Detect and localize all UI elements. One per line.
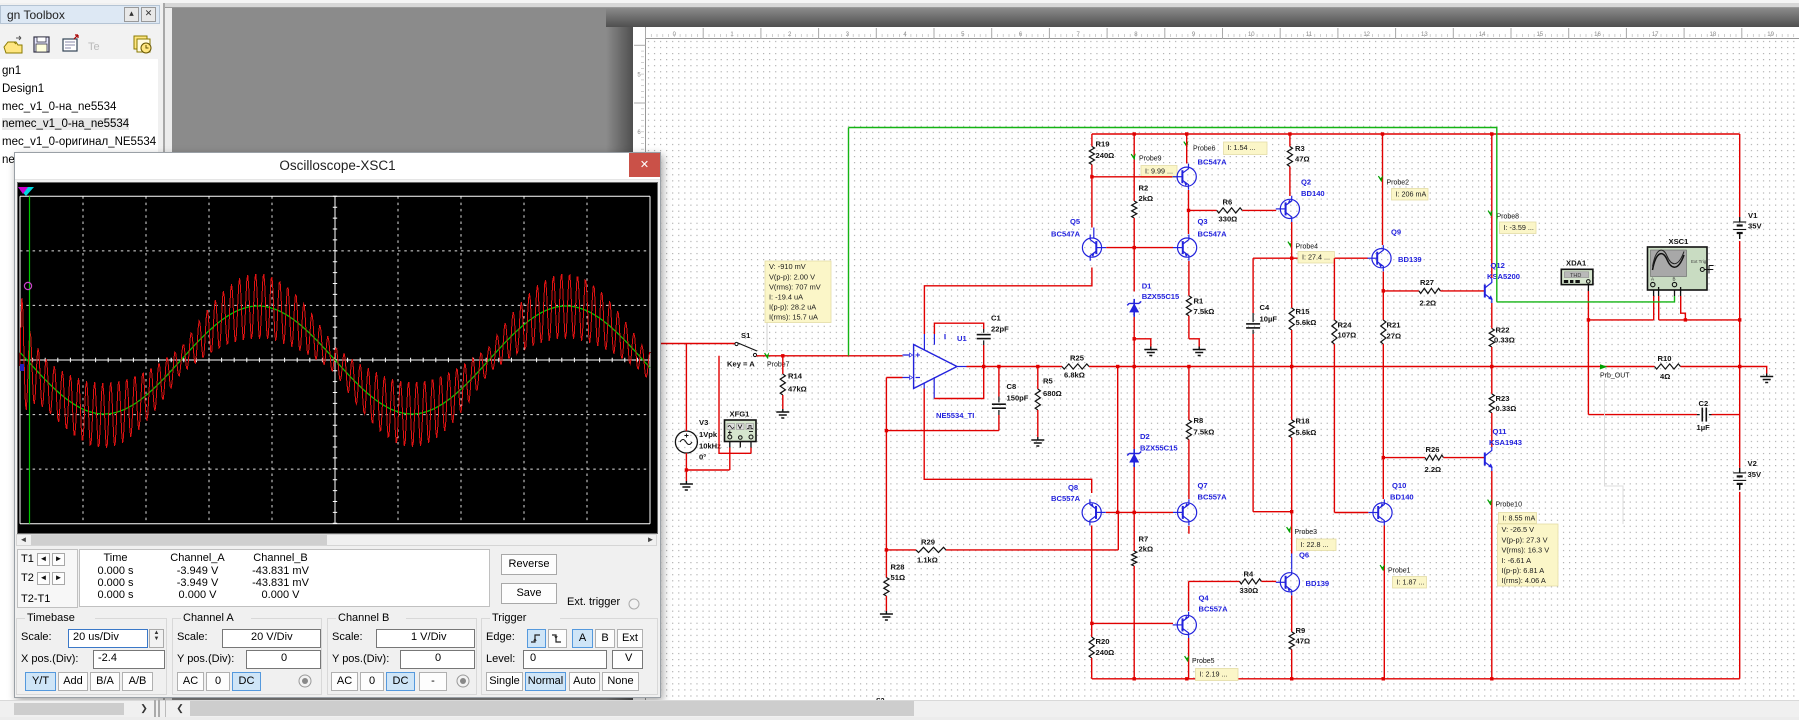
svg-text:Q9: Q9 xyxy=(1391,228,1401,237)
svg-text:47Ω: 47Ω xyxy=(1295,155,1310,164)
svg-text:R27: R27 xyxy=(1420,278,1434,287)
probe Probe8 readout xyxy=(1500,222,1537,234)
wire op-amp - input from feedback node xyxy=(886,377,902,379)
svg-text:B: B xyxy=(1673,277,1676,282)
wire U1 pin1 to Q5 emitter xyxy=(924,268,1092,335)
svg-text:330Ω: 330Ω xyxy=(1219,215,1238,224)
svg-text:R14: R14 xyxy=(788,372,803,381)
svg-text:I: 22.8 ...: I: 22.8 ... xyxy=(1301,540,1329,549)
node Q1 base line xyxy=(1090,175,1093,178)
transistor Q1 xyxy=(1173,158,1228,190)
wire V1 to mid rail xyxy=(1739,241,1741,320)
wire Q12 emitter to R22 xyxy=(1491,303,1493,329)
wire Q3 emitter to R1 xyxy=(1188,261,1190,296)
node top bus Q12 tap xyxy=(1490,132,1493,135)
svg-text:5.6kΩ: 5.6kΩ xyxy=(1296,318,1317,327)
wire V3 bottom node xyxy=(685,453,730,472)
svg-text:R29: R29 xyxy=(921,538,935,547)
node mid rail scope tap xyxy=(1738,318,1741,321)
svg-text:I: 206 mA: I: 206 mA xyxy=(1396,190,1427,199)
svg-text:Q5: Q5 xyxy=(1070,217,1081,226)
wire R14 to ground xyxy=(782,395,784,409)
transistor Q6 xyxy=(1276,551,1329,596)
transistor Q7 xyxy=(1173,481,1227,526)
capacitor C1 xyxy=(977,314,1009,346)
ground R5 xyxy=(1031,437,1044,446)
svg-text:Q11: Q11 xyxy=(1493,427,1508,436)
probe Probe10 readout xyxy=(1499,513,1537,524)
wire mid rail xyxy=(1739,320,1741,468)
svg-text:Probe2: Probe2 xyxy=(1387,180,1410,187)
probe Probe2 xyxy=(1378,175,1409,186)
svg-text:I: -3.59 ...: I: -3.59 ... xyxy=(1504,223,1534,232)
svg-text:Probe8: Probe8 xyxy=(1497,214,1520,221)
svg-text:D2: D2 xyxy=(1140,432,1150,441)
wire C4 column down xyxy=(1253,334,1291,512)
label S2 remnant xyxy=(876,698,885,705)
node C8 tap xyxy=(997,365,1000,368)
svg-text:BD139: BD139 xyxy=(1398,255,1422,264)
wire U1 lower comp loop xyxy=(934,367,984,399)
wire output rail right xyxy=(1089,366,1655,368)
wire green probe drop xyxy=(848,128,850,356)
wire U1 V- pin to Q8 collector xyxy=(924,389,1091,494)
svg-text:V(p-p): 27.3 V: V(p-p): 27.3 V xyxy=(1502,535,1548,544)
svg-text:Probe9: Probe9 xyxy=(1139,156,1162,163)
svg-text:R5: R5 xyxy=(1043,377,1053,386)
svg-text:R6: R6 xyxy=(1223,198,1233,207)
wire R1 to ground tap xyxy=(1189,316,1199,347)
diode D2 BZX55C15 xyxy=(1127,432,1178,467)
wire C2 to mid rail xyxy=(1712,414,1740,416)
wire D2 base line to R7 xyxy=(1133,512,1135,551)
svg-text:10kHz: 10kHz xyxy=(699,442,721,451)
svg-text:V(rms): 707 mV: V(rms): 707 mV xyxy=(769,282,821,291)
svg-text:D1: D1 xyxy=(1142,282,1152,291)
resistor R10 xyxy=(1655,354,1681,381)
svg-text:150pF: 150pF xyxy=(1007,394,1029,403)
resistor R6 xyxy=(1189,198,1277,224)
wire scope B- jog xyxy=(1681,296,1687,322)
resistor R18 xyxy=(1289,367,1316,512)
svg-text:Q10: Q10 xyxy=(1392,481,1406,490)
transistor Q3 xyxy=(1173,217,1227,261)
svg-text:V3: V3 xyxy=(699,418,708,427)
node mid rail output tap xyxy=(1738,365,1741,368)
svg-text:BZX55C15: BZX55C15 xyxy=(1142,292,1180,301)
svg-text:Q6: Q6 xyxy=(1299,551,1309,560)
leader line Prb_OUT xyxy=(1605,379,1624,524)
svg-text:R1: R1 xyxy=(1194,297,1204,306)
wire scope A- line xyxy=(1659,296,1740,320)
svg-text:V(rms): 16.3 V: V(rms): 16.3 V xyxy=(1502,546,1550,555)
node R5 tap xyxy=(1036,365,1039,368)
capacitor C2 xyxy=(1697,399,1712,432)
resistor R4 xyxy=(1240,570,1277,596)
svg-text:V(p-p): 2.00 V: V(p-p): 2.00 V xyxy=(769,272,815,281)
svg-text:V1: V1 xyxy=(1748,211,1758,220)
resistor R8 xyxy=(1186,416,1214,499)
svg-text:Probe7: Probe7 xyxy=(767,362,790,369)
transistor Q8 xyxy=(1051,483,1106,526)
probe Probe7 xyxy=(765,352,790,368)
resistor R2 xyxy=(1132,184,1153,219)
wire Q5-Q3 base line xyxy=(1106,247,1173,249)
svg-text:R3: R3 xyxy=(1295,144,1305,153)
probe Probe5 xyxy=(1185,655,1215,665)
svg-text:V: -26.5 V: V: -26.5 V xyxy=(1502,525,1535,534)
wire Q11 emitter down xyxy=(1490,471,1493,681)
svg-text:C4: C4 xyxy=(1260,303,1270,312)
wire op-amp output rail xyxy=(967,366,1063,368)
svg-text:0°: 0° xyxy=(699,453,706,462)
wire Q4 base line xyxy=(1090,622,1173,625)
svg-text:R19: R19 xyxy=(1096,140,1110,149)
wire Q10 emitter down xyxy=(1382,526,1385,681)
probe Probe5 readout xyxy=(1196,669,1239,681)
wire input from source to switch xyxy=(656,343,735,345)
svg-text:I: 1.87 ...: I: 1.87 ... xyxy=(1397,578,1425,587)
svg-text:BC557A: BC557A xyxy=(1199,605,1229,614)
probe Probe6 readout xyxy=(1224,142,1268,155)
ground D1 xyxy=(1144,347,1157,356)
svg-text:V: -910 mV: V: -910 mV xyxy=(769,262,806,271)
wire output to base line xyxy=(1116,367,1119,515)
svg-text:A: A xyxy=(1651,277,1654,282)
wire Q6 emitter to R9 xyxy=(1291,596,1293,632)
resistor R24 xyxy=(1332,258,1369,512)
transistor Q11 KSA1943 xyxy=(1485,427,1522,471)
svg-text:Probe10: Probe10 xyxy=(1496,502,1523,509)
svg-text:I: -6.61 A: I: -6.61 A xyxy=(1502,556,1532,565)
svg-text:Ext Trig: Ext Trig xyxy=(1691,259,1707,264)
wire Q8-Q7 base line xyxy=(1106,511,1173,513)
svg-text:240Ω: 240Ω xyxy=(1096,151,1115,160)
svg-text:XDA1: XDA1 xyxy=(1566,259,1587,268)
wire R29 to Q8 base xyxy=(1117,512,1119,550)
svg-text:1.1kΩ: 1.1kΩ xyxy=(917,556,938,565)
diode D1 BZX55C15 xyxy=(1127,282,1180,317)
node top bus R2 tap xyxy=(1133,132,1136,135)
wire feedback node horizontal xyxy=(885,429,999,432)
resistor R14 xyxy=(780,372,807,396)
svg-text:BZX55C15: BZX55C15 xyxy=(1140,444,1178,453)
svg-text:Probe5: Probe5 xyxy=(1192,658,1215,665)
wire XFG1 - pin loop xyxy=(719,356,751,454)
svg-text:C2: C2 xyxy=(1699,399,1709,408)
wire C8 bottom xyxy=(998,415,1000,431)
wire Q7 emitter down xyxy=(1188,526,1190,534)
probe Probe1 readout xyxy=(1393,577,1427,589)
measurement box input xyxy=(765,261,831,323)
probe Probe2 readout xyxy=(1392,189,1429,201)
svg-text:KSA1943: KSA1943 xyxy=(1489,438,1522,447)
wire R19 column to Q5 xyxy=(1091,177,1093,228)
transistor Q10 xyxy=(1368,481,1413,526)
wire U1 comp pin to C1 xyxy=(934,323,983,334)
svg-text:2.2Ω: 2.2Ω xyxy=(1420,299,1437,308)
svg-text:NE5534_TI: NE5534_TI xyxy=(936,411,974,420)
wire XFG1 + pin down-left xyxy=(729,448,731,471)
node R14 tap xyxy=(781,354,784,357)
svg-text:Probe1: Probe1 xyxy=(1388,568,1411,575)
svg-text:I: 9.99 ...: I: 9.99 ... xyxy=(1145,167,1173,176)
svg-text:R8: R8 xyxy=(1194,416,1204,425)
svg-text:I: 27.4 ...: I: 27.4 ... xyxy=(1302,253,1330,262)
wire Q1 emitter to R6 node xyxy=(1187,190,1190,212)
wire C2 line xyxy=(1588,414,1697,416)
resistor R23 xyxy=(1489,367,1516,448)
svg-text:240Ω: 240Ω xyxy=(1096,648,1115,657)
transistor Q2 xyxy=(1276,178,1325,223)
probe Probe6 xyxy=(1184,141,1216,153)
svg-text:KSA5200: KSA5200 xyxy=(1487,272,1520,281)
probe Probe1 xyxy=(1380,564,1411,574)
transistor Q5 xyxy=(1051,217,1106,261)
svg-text:35V: 35V xyxy=(1748,470,1762,479)
function generator XFG1 xyxy=(725,410,757,448)
wire R18 column to Q6 xyxy=(1291,512,1293,554)
svg-text:C8: C8 xyxy=(1007,382,1017,391)
svg-text:R15: R15 xyxy=(1296,307,1311,316)
svg-text:THD: THD xyxy=(1570,273,1581,279)
wire top supply bus xyxy=(1092,133,1740,135)
resistor R28 xyxy=(884,548,905,611)
svg-text:680Ω: 680Ω xyxy=(1043,389,1062,398)
svg-text:BC547A: BC547A xyxy=(1198,230,1228,239)
svg-text:51Ω: 51Ω xyxy=(891,573,906,582)
svg-text:I: 2.19 ...: I: 2.19 ... xyxy=(1200,670,1228,679)
svg-text:1µF: 1µF xyxy=(1697,423,1711,432)
wire R10 to ground xyxy=(1681,367,1767,374)
wire feedback column xyxy=(885,378,887,550)
svg-text:R9: R9 xyxy=(1296,626,1306,635)
resistor R9 xyxy=(1289,626,1310,681)
wire XDA1 pin column xyxy=(1587,283,1589,415)
node top bus R19 corner xyxy=(0,0,1,1)
wire R2 column top xyxy=(1133,134,1135,201)
wire base line to D1 xyxy=(1133,248,1135,292)
wire R19 to Q1 base xyxy=(1092,176,1173,178)
svg-text:BD139: BD139 xyxy=(1306,579,1330,588)
source V2 xyxy=(1733,459,1762,490)
switch S1 xyxy=(727,331,757,369)
wire bias line 258 xyxy=(1253,257,1368,259)
wire bottom supply bus xyxy=(1092,678,1740,680)
probe Probe3 readout xyxy=(1297,539,1337,551)
wire D column to output xyxy=(1133,339,1136,368)
resistor R22 xyxy=(1489,326,1515,369)
distortion analyzer XDA1 xyxy=(1561,259,1593,285)
resistor R27 xyxy=(1383,278,1484,308)
svg-text:2.2Ω: 2.2Ω xyxy=(1425,465,1442,474)
source V1 xyxy=(1733,211,1762,239)
svg-text:Q8: Q8 xyxy=(1068,483,1078,492)
svg-text:R26: R26 xyxy=(1426,445,1440,454)
svg-text:R7: R7 xyxy=(1139,535,1149,544)
node top bus Q9 tap xyxy=(1381,132,1384,135)
op-amp U1 xyxy=(903,334,975,420)
wire D2 to base line 2 xyxy=(1133,467,1136,514)
svg-text:R10: R10 xyxy=(1658,354,1672,363)
svg-text:BC557A: BC557A xyxy=(1198,493,1228,502)
node output feedback tap xyxy=(1116,365,1119,368)
svg-text:R22: R22 xyxy=(1496,326,1510,335)
svg-text:35V: 35V xyxy=(1748,222,1762,231)
probe Probe8 xyxy=(1488,210,1519,221)
svg-text:BD140: BD140 xyxy=(1390,493,1414,502)
svg-text:Probe4: Probe4 xyxy=(1296,244,1319,251)
wire Q12 collector column xyxy=(1491,134,1493,278)
probe Probe3 xyxy=(1287,526,1318,536)
svg-text:R24: R24 xyxy=(1338,321,1353,330)
svg-text:I: 1.54 ...: I: 1.54 ... xyxy=(1228,143,1256,152)
svg-text:Prb_OUT: Prb_OUT xyxy=(1600,373,1630,380)
wire Q9 emitter to R27 node xyxy=(1382,272,1385,293)
svg-text:C1: C1 xyxy=(991,314,1001,323)
svg-text:27Ω: 27Ω xyxy=(1387,332,1402,341)
svg-text:2kΩ: 2kΩ xyxy=(1139,194,1154,203)
svg-text:Q3: Q3 xyxy=(1198,217,1208,226)
svg-text:7.5kΩ: 7.5kΩ xyxy=(1194,307,1215,316)
svg-text:107Ω: 107Ω xyxy=(1338,331,1357,340)
node scope line tap xyxy=(1587,318,1590,321)
resistor R1 xyxy=(1186,296,1214,316)
resistor R29 xyxy=(886,538,1118,565)
wire output to R8 xyxy=(1188,367,1190,421)
probe Prb_OUT xyxy=(1600,364,1630,379)
svg-text:Q7: Q7 xyxy=(1198,481,1208,490)
wire D1 to ground tap xyxy=(1133,317,1151,347)
capacitor C4 xyxy=(1246,258,1277,334)
transistor Q9 xyxy=(1367,228,1421,272)
svg-text:U1: U1 xyxy=(957,334,967,343)
node output R8 tap xyxy=(1187,365,1190,368)
svg-text:0.33Ω: 0.33Ω xyxy=(1496,404,1517,413)
ground R28 xyxy=(880,611,893,620)
svg-text:R25: R25 xyxy=(1070,354,1085,363)
ground R1 xyxy=(1193,347,1206,356)
svg-text:BC557A: BC557A xyxy=(1051,494,1081,503)
wire C1 to output xyxy=(982,345,985,368)
resistor R3 xyxy=(1287,134,1309,196)
node top bus Q1 tap xyxy=(1185,132,1188,135)
resistor R7 xyxy=(1132,535,1153,681)
svg-text:I(p-p): 6.81 A: I(p-p): 6.81 A xyxy=(1502,566,1545,575)
svg-text:XSC1: XSC1 xyxy=(1669,237,1690,246)
svg-text:10µF: 10µF xyxy=(1260,315,1278,324)
svg-text:47kΩ: 47kΩ xyxy=(788,385,807,394)
svg-text:V2: V2 xyxy=(1748,459,1757,468)
svg-text:Q2: Q2 xyxy=(1301,178,1311,187)
svg-text:R20: R20 xyxy=(1096,637,1110,646)
wire V3 top xyxy=(685,344,687,432)
svg-text:Q4: Q4 xyxy=(1199,594,1210,603)
node R18 C4 junction xyxy=(1290,510,1293,513)
svg-text:7.5kΩ: 7.5kΩ xyxy=(1194,428,1215,437)
node top bus R3 tap xyxy=(1288,132,1291,135)
probe Probe4 xyxy=(1288,241,1318,251)
svg-text:BC547A: BC547A xyxy=(1051,230,1081,239)
wire V3 to ground xyxy=(685,470,687,481)
svg-text:R28: R28 xyxy=(891,563,905,572)
wire R2 to base line xyxy=(1133,218,1136,249)
transistor Q12 KSA5200 xyxy=(1485,261,1520,303)
measurement box output xyxy=(1498,524,1559,586)
resistor R25 xyxy=(1062,354,1089,380)
wire scope A+ line xyxy=(1588,296,1653,320)
resistor R20 xyxy=(1089,637,1114,679)
wire Q4 collector to R4 xyxy=(1189,581,1240,611)
probe Probe4 readout xyxy=(1298,252,1334,264)
svg-text:R18: R18 xyxy=(1296,417,1310,426)
source V3 xyxy=(675,418,721,462)
node R26 tap xyxy=(1382,456,1385,459)
wire Q2 emitter down xyxy=(1290,222,1293,260)
svg-text:5.6kΩ: 5.6kΩ xyxy=(1296,428,1317,437)
transistor Q4 xyxy=(1173,594,1228,639)
svg-text:Probe6: Probe6 xyxy=(1193,146,1216,153)
svg-text:I(rms): 4.06 A: I(rms): 4.06 A xyxy=(1502,576,1546,585)
svg-text:I(p-p): 28.2 uA: I(p-p): 28.2 uA xyxy=(769,303,816,312)
ground R14 xyxy=(776,409,789,418)
svg-text:0.33Ω: 0.33Ω xyxy=(1494,336,1515,345)
wire green scope channel B xyxy=(849,128,1675,302)
svg-text:BD140: BD140 xyxy=(1301,189,1325,198)
ground V3 xyxy=(680,481,693,490)
svg-text:Key = A: Key = A xyxy=(727,360,755,369)
svg-text:Q12: Q12 xyxy=(1491,261,1505,270)
svg-text:R2: R2 xyxy=(1139,184,1149,193)
leader line probe box xyxy=(766,322,768,352)
svg-text:330Ω: 330Ω xyxy=(1240,586,1259,595)
wire Q9 collector column xyxy=(1382,134,1384,245)
wire R14 top xyxy=(782,356,784,374)
svg-text:BC547A: BC547A xyxy=(1198,158,1228,167)
resistor R19 xyxy=(1089,134,1114,177)
svg-text:Probe3: Probe3 xyxy=(1295,529,1318,536)
wire Q1 emitter to Q3 collector xyxy=(1188,210,1190,234)
svg-text:1Vpk: 1Vpk xyxy=(699,430,718,439)
wire Q4 emitter down xyxy=(1185,638,1189,681)
svg-text:I: 8.55 mA: I: 8.55 mA xyxy=(1503,514,1536,523)
capacitor C8 xyxy=(992,367,1029,416)
resistor R21 xyxy=(1381,291,1402,458)
svg-text:I: -19.4 uA: I: -19.4 uA xyxy=(769,293,803,302)
node output R15 tap xyxy=(1290,365,1293,368)
resistor R5 xyxy=(1035,367,1062,438)
wire Q8 emitter column xyxy=(1091,526,1093,638)
wire V2 to bottom bus xyxy=(1739,492,1741,679)
probe Probe10 xyxy=(1488,499,1522,509)
wire R26 node to Q10 xyxy=(1382,458,1384,499)
svg-text:47Ω: 47Ω xyxy=(1296,637,1311,646)
wire Q1 collector xyxy=(1186,134,1188,164)
probe Probe9 readout xyxy=(1141,166,1177,178)
probe Probe9 xyxy=(1131,153,1161,162)
svg-text:22pF: 22pF xyxy=(991,325,1009,334)
wire V1 column xyxy=(1739,134,1741,217)
svg-text:R23: R23 xyxy=(1496,394,1510,403)
resistor R26 xyxy=(1383,445,1484,474)
svg-text:R4: R4 xyxy=(1244,570,1254,579)
wire switch to op-amp + input xyxy=(757,355,903,357)
svg-text:XFG1: XFG1 xyxy=(730,410,751,419)
resistor R15 xyxy=(1289,258,1316,366)
wire output to D2 xyxy=(1133,367,1135,450)
svg-text:4Ω: 4Ω xyxy=(1660,372,1670,381)
svg-text:S1: S1 xyxy=(741,331,751,340)
